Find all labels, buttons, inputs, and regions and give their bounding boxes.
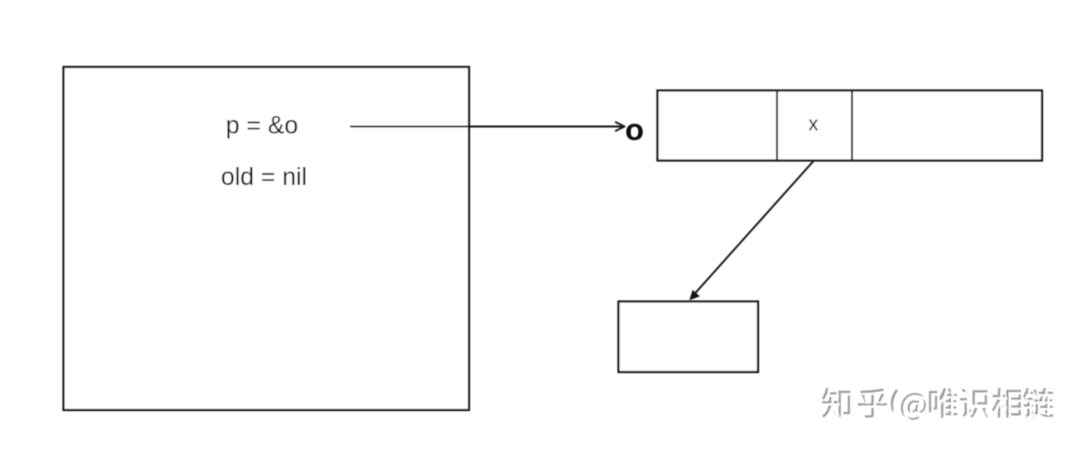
watermark text 知乎@唯识相链 (embossed): [822, 388, 1056, 422]
object record box (3 cells): [658, 91, 1043, 161]
cell divider 2: [851, 91, 853, 161]
child object box: [619, 302, 759, 373]
wire arrow from p to node o: [350, 122, 625, 131]
cell divider 1: [776, 91, 778, 161]
big code box: [64, 67, 470, 410]
wire arrow from cell x to child box: [689, 161, 813, 300]
